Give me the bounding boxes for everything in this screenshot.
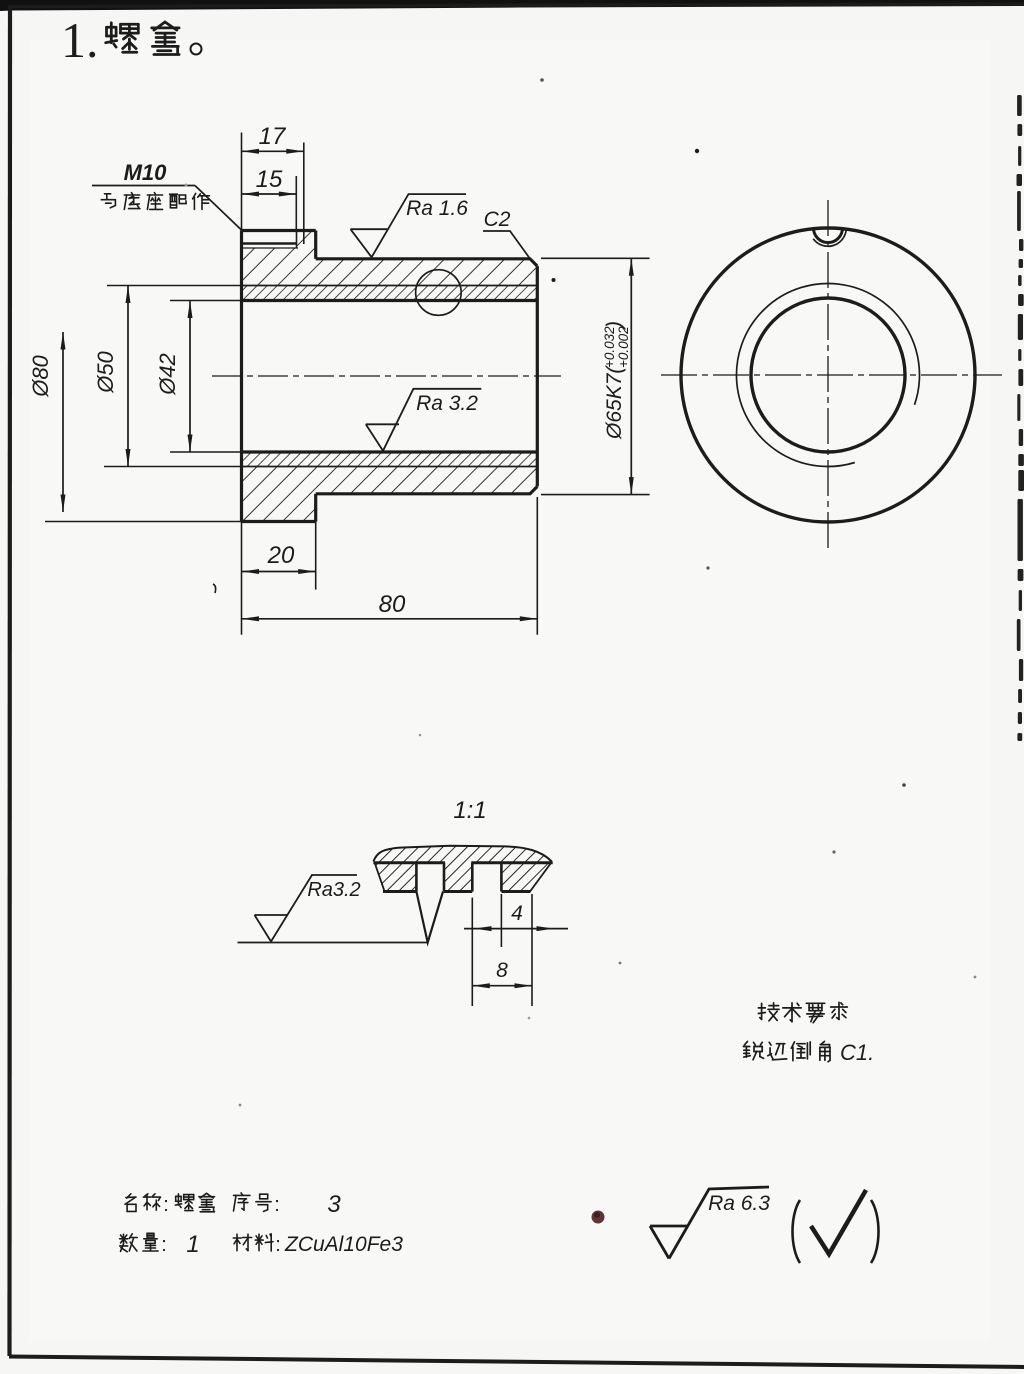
parenthesized check mark xyxy=(793,1200,801,1263)
outline: sleeve left face xyxy=(240,231,243,522)
svg-text::: : xyxy=(274,1194,280,1216)
svg-text:Ra3.2: Ra3.2 xyxy=(307,879,360,901)
dim dia65K7 extension lines xyxy=(541,257,650,259)
outline: body top edge with C2 chamfer xyxy=(316,259,538,266)
dim 80 xyxy=(536,497,538,635)
detail right broken end xyxy=(530,862,552,892)
centerline of main view xyxy=(212,375,561,377)
svg-text::: : xyxy=(161,1234,167,1256)
tech requirements heading xyxy=(758,1003,779,1021)
svg-text:8: 8 xyxy=(496,959,508,982)
svg-text:ZCuAl10Fe3: ZCuAl10Fe3 xyxy=(284,1233,403,1256)
svg-text:Ø80: Ø80 xyxy=(28,354,53,397)
M10 hole bottom line (thick) xyxy=(242,242,297,245)
svg-text::: : xyxy=(275,1234,281,1256)
hatching: lower wall of sleeve section xyxy=(242,467,538,522)
svg-text:Ra 1.6: Ra 1.6 xyxy=(406,197,468,220)
detail indicator circle xyxy=(416,270,462,316)
detail left broken end xyxy=(374,862,384,892)
dim 15 xyxy=(242,193,297,195)
surface finish Ra 6.3 (general) xyxy=(650,1225,688,1228)
svg-text:1.: 1. xyxy=(61,12,99,68)
svg-text:15: 15 xyxy=(256,166,283,193)
svg-text:+0.032: +0.032 xyxy=(602,326,617,368)
svg-text:20: 20 xyxy=(267,542,295,569)
dim dia50 xyxy=(107,285,242,287)
detail Ra3.2 leader line xyxy=(238,942,428,944)
outline: flange right face (bottom) xyxy=(314,494,317,522)
detail thread root line right xyxy=(471,861,552,864)
detail hatching xyxy=(373,846,551,892)
dim dia80 xyxy=(45,521,242,523)
svg-text:Ø50: Ø50 xyxy=(93,350,118,393)
detail top break line xyxy=(373,846,551,862)
svg-text:C1.: C1. xyxy=(840,1040,874,1065)
thread major line bottom (dia 50, thin) xyxy=(242,466,538,468)
svg-text::: : xyxy=(163,1194,169,1216)
M10 half-hole thick arc xyxy=(814,228,843,243)
detail dim 8 xyxy=(472,985,532,987)
page binding edge marks (right) xyxy=(1017,95,1024,741)
extension line x=296.3 (15) xyxy=(295,176,297,231)
extension line x=303.8 (17) xyxy=(303,143,305,232)
svg-text:Ø65K7(: Ø65K7( xyxy=(603,365,626,440)
svg-text:1:1: 1:1 xyxy=(453,797,486,824)
detail slot 2 walls xyxy=(471,863,474,892)
surface finish Ra 1.6 xyxy=(351,228,388,230)
svg-text:+0.002: +0.002 xyxy=(616,326,631,368)
bore line top (dia 42) xyxy=(242,299,538,302)
extension line left face up xyxy=(241,133,243,231)
hatching: upper wall of sleeve section xyxy=(242,231,538,286)
svg-text:M10: M10 xyxy=(124,160,168,185)
outline: flange right face (top) xyxy=(314,231,317,259)
M10 hole end xyxy=(296,231,298,248)
svg-text:1: 1 xyxy=(186,1231,199,1258)
red ink dot xyxy=(592,1211,605,1224)
svg-text:80: 80 xyxy=(379,591,406,618)
detail dim 4 xyxy=(471,898,473,1006)
outline: body right end face xyxy=(536,266,539,486)
outline: body bottom edge with chamfer xyxy=(316,487,538,494)
detail bore line segments xyxy=(383,890,416,893)
end view bore circle (dia 42) xyxy=(751,298,905,452)
detail slot 1 walls xyxy=(415,863,418,892)
end view thread circle (dia 50, thin, 3/4) xyxy=(736,284,919,467)
surface finish Ra3.2 (detail) xyxy=(255,914,289,916)
M10 half-hole thin arc xyxy=(813,231,846,247)
svg-text:Ø42: Ø42 xyxy=(155,353,180,396)
drawing frame bottom border xyxy=(9,1357,1024,1368)
svg-text:4: 4 xyxy=(511,902,523,925)
hatching: lower thread band xyxy=(242,452,538,467)
svg-text:C2: C2 xyxy=(484,208,511,231)
svg-text:Ra 3.2: Ra 3.2 xyxy=(416,392,478,415)
thread major line top (dia 50, thin) xyxy=(242,285,538,287)
dim 20 xyxy=(241,522,243,635)
dim dia65K7 xyxy=(630,258,632,494)
end view outer circle (dia 80) xyxy=(681,228,975,522)
outline: flange top edge xyxy=(242,229,316,232)
svg-text:Ra 6.3: Ra 6.3 xyxy=(708,1192,770,1215)
svg-text:3: 3 xyxy=(327,1191,341,1218)
outline: flange bottom edge xyxy=(242,520,316,523)
end view vertical centerline xyxy=(827,200,829,553)
dim dia42 xyxy=(170,300,242,302)
drawing frame left border xyxy=(7,5,12,1356)
tech requirements line: sharp edge chamfer C1 xyxy=(743,1041,763,1059)
bore line bottom (dia 42) xyxy=(242,450,538,453)
part name line xyxy=(125,1194,136,1212)
detail thread root line left xyxy=(373,861,445,864)
drawing frame top border xyxy=(10,4,1024,7)
end view horizontal centerline xyxy=(661,374,1002,376)
svg-text:17: 17 xyxy=(259,123,287,150)
quantity / material line xyxy=(120,1234,138,1252)
M10 thread thin line xyxy=(242,247,299,249)
surface finish Ra 3.2 on bore xyxy=(366,423,399,425)
hatching: upper thread band xyxy=(242,286,538,301)
dim 17 xyxy=(242,150,304,152)
detail sharp tooth V xyxy=(416,892,443,943)
